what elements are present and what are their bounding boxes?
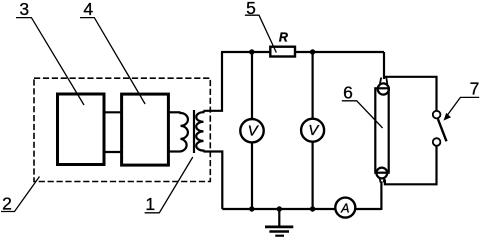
leader 7 arrowhead: [444, 113, 452, 121]
ground stem: [278, 209, 280, 226]
junction node bottom V2: [310, 206, 315, 211]
voltmeter V1: [240, 119, 263, 142]
svg-text:1: 1: [145, 194, 155, 214]
leader line 1: [145, 157, 193, 213]
box 3 (block): [58, 94, 105, 165]
ground bar 3: [275, 235, 284, 237]
wire secondary top to top bus: [204, 52, 223, 111]
svg-text:2: 2: [2, 194, 12, 214]
voltmeter V2 wire lower: [312, 142, 314, 209]
svg-text:R: R: [279, 31, 288, 45]
wire box4 to primary bottom: [168, 150, 181, 152]
switch lower contact: [433, 138, 441, 146]
junction node top-right of resistor: [310, 49, 315, 54]
lamp top electrode funnel: [380, 78, 387, 85]
leader line 2: [1, 177, 40, 212]
svg-text:7: 7: [470, 79, 480, 99]
resistor R: [270, 47, 295, 57]
box 4 (block): [122, 94, 169, 165]
voltmeter V2 wire upper: [312, 52, 314, 119]
leader line 7: [446, 97, 479, 117]
junction node top-left of resistor: [249, 49, 254, 54]
top bus wire left of resistor: [221, 51, 270, 53]
lamp bottom electrode funnel: [380, 178, 385, 183]
lamp bottom electrode circle: [376, 168, 387, 179]
switch upper contact: [433, 111, 441, 119]
bottom bus wire left segment: [222, 208, 336, 210]
transformer T1 primary winding: [181, 112, 188, 151]
wire secondary bottom to bottom bus: [204, 152, 223, 210]
lamp tube (6): [375, 88, 388, 172]
lamp bottom lead to bottom bus: [380, 182, 382, 211]
voltmeter V2: [301, 119, 324, 142]
transformer T1 secondary winding: [196, 111, 203, 152]
switch blade: [438, 119, 447, 141]
dashed enclosure box (unit 2): [34, 78, 210, 181]
ground bar 1: [265, 226, 293, 229]
ground bar 2: [269, 230, 289, 232]
bottom bus wire right segment (ammeter to lamp): [355, 208, 381, 210]
leader line 4: [80, 18, 145, 104]
svg-text:3: 3: [19, 0, 29, 19]
voltmeter V1 wire upper: [251, 52, 253, 119]
transformer core: [193, 110, 195, 153]
leader line 5: [245, 15, 276, 52]
wire box3 to box4 top: [104, 111, 123, 113]
wire box4 to primary top: [168, 111, 181, 113]
junction node bottom V1: [249, 206, 254, 211]
leader line 6: [342, 101, 383, 128]
lamp top electrode circle: [378, 83, 389, 94]
svg-text:4: 4: [83, 0, 93, 19]
ammeter A: [335, 198, 355, 218]
junction node bottom ground: [277, 206, 282, 211]
wire box3 to box4 bottom: [104, 151, 123, 153]
voltmeter V1 wire lower: [251, 142, 253, 209]
switch branch top wire: [384, 77, 437, 111]
lamp top lead from top bus: [383, 52, 385, 79]
leader line 3: [16, 18, 84, 105]
svg-text:6: 6: [343, 83, 353, 103]
switch return wire to lamp bottom: [385, 146, 437, 184]
top bus wire right of resistor: [296, 51, 385, 53]
svg-text:A: A: [340, 201, 349, 215]
